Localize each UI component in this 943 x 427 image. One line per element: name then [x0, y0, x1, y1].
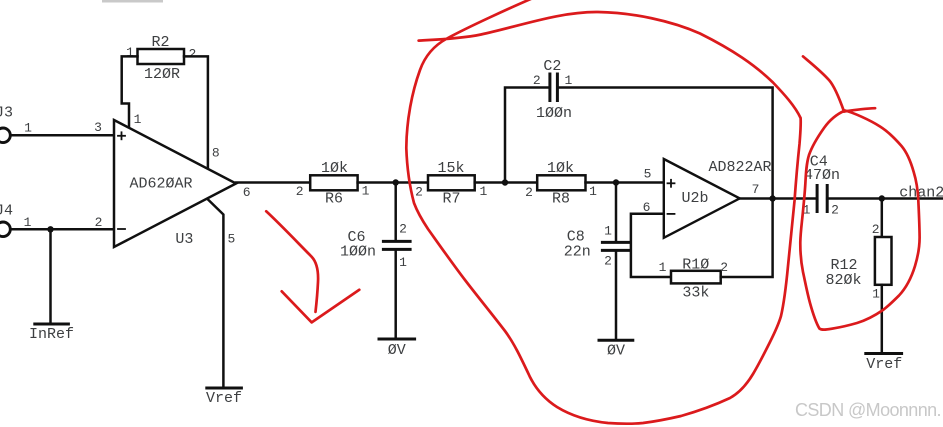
Vref terminal left: [206, 388, 242, 407]
cropped gray bar: [102, 0, 163, 3]
capacitor C4: [803, 154, 840, 218]
wire C6 to 0V: [394, 249, 397, 338]
svg-text:5: 5: [227, 232, 235, 247]
svg-text:12ØR: 12ØR: [144, 66, 180, 83]
wire U2b pin6 feedback: [631, 200, 671, 277]
svg-text:6: 6: [643, 200, 651, 215]
junction node at U2b output: [769, 195, 775, 201]
svg-text:1: 1: [24, 121, 32, 136]
svg-text:1: 1: [659, 260, 667, 275]
svg-text:2: 2: [533, 73, 541, 88]
wire node A to C6: [394, 183, 397, 242]
svg-text:5: 5: [644, 167, 652, 182]
svg-text:U2b: U2b: [681, 190, 708, 207]
op-amp U2b AD822AR: [664, 159, 772, 238]
connector J3: [0, 105, 13, 143]
svg-text:Vref: Vref: [206, 390, 242, 407]
capacitor C2: [533, 58, 573, 122]
junction node B: [502, 179, 508, 185]
svg-text:ØV: ØV: [388, 342, 406, 359]
svg-text:2: 2: [604, 254, 612, 269]
svg-text:1: 1: [589, 184, 597, 199]
capacitor C6: [340, 222, 410, 271]
svg-text:1: 1: [362, 184, 370, 199]
red annotation right loop: [800, 111, 919, 330]
op-amp U3 AD620AR: [114, 120, 236, 248]
svg-text:InRef: InRef: [29, 326, 74, 343]
wire J4 pin1 to U3 pin2: [10, 215, 114, 230]
svg-text:R1Ø: R1Ø: [682, 256, 709, 273]
capacitor C8: [564, 224, 630, 269]
wire U2b pin7 output: [740, 182, 817, 199]
svg-text:2: 2: [720, 260, 728, 275]
wire R12 to Vref: [881, 285, 884, 353]
resistor R7: [415, 160, 487, 208]
svg-text:J3: J3: [0, 105, 13, 122]
svg-text:Vref: Vref: [866, 356, 902, 373]
wire R10 pin2 to output: [721, 199, 773, 278]
svg-text:1Øk: 1Øk: [547, 160, 574, 177]
junction node D: [879, 195, 885, 201]
svg-text:22n: 22n: [564, 243, 591, 260]
svg-text:AD62ØAR: AD62ØAR: [129, 176, 192, 193]
svg-text:ØV: ØV: [607, 343, 625, 360]
junction node C: [613, 179, 619, 185]
svg-text:R2: R2: [151, 34, 169, 51]
wire C2 to U2b output: [557, 88, 772, 199]
svg-text:6: 6: [243, 185, 251, 200]
red annotation arrow stroke: [266, 211, 318, 312]
red annotation right loop tail: [803, 56, 844, 111]
svg-text:7: 7: [752, 182, 760, 197]
resistor R12: [825, 237, 891, 302]
wire U3 pin6 to R6: [236, 183, 310, 201]
svg-text:3: 3: [94, 120, 102, 135]
wire J3 pin1 to U3 pin3: [10, 120, 114, 136]
svg-text:2: 2: [95, 215, 103, 230]
wire node B up to C2: [505, 88, 550, 183]
wire to InRef: [49, 229, 52, 323]
resistor R6: [296, 160, 370, 208]
svg-text:8: 8: [212, 146, 220, 161]
svg-text:R6: R6: [325, 191, 343, 208]
svg-text:1: 1: [24, 215, 32, 230]
svg-text:1Øk: 1Øk: [321, 160, 348, 177]
svg-text:33k: 33k: [682, 285, 709, 302]
junction node A: [393, 179, 399, 185]
svg-text:J4: J4: [0, 203, 13, 220]
svg-text:1: 1: [126, 45, 134, 60]
svg-text:47Øn: 47Øn: [804, 167, 840, 184]
Vref terminal right: [866, 354, 903, 374]
red annotation big loop: [406, 0, 800, 424]
wire node C to C8: [615, 183, 618, 243]
svg-text:1: 1: [134, 112, 142, 127]
svg-text:U3: U3: [175, 231, 193, 248]
svg-text:R7: R7: [442, 191, 460, 208]
svg-text:1ØØn: 1ØØn: [536, 105, 572, 122]
red annotation arrow head: [282, 290, 360, 323]
svg-text:2: 2: [399, 222, 407, 237]
svg-text:2: 2: [415, 185, 423, 200]
InRef terminal: [29, 324, 74, 343]
svg-text:2: 2: [296, 184, 304, 199]
svg-text:CSDN @Moonnnn.: CSDN @Moonnnn.: [795, 400, 941, 420]
wire R2 pin1 to U3 pin1: [122, 56, 142, 128]
resistor R2: [126, 34, 196, 83]
resistor R10: [659, 256, 728, 301]
ground 0V right: [599, 340, 633, 359]
ground 0V left: [379, 339, 415, 359]
wire node D to R12: [872, 199, 882, 238]
svg-text:1: 1: [604, 224, 612, 239]
resistor R8: [525, 160, 597, 208]
wire R2 pin2 to U3 pin8: [184, 56, 220, 169]
wire C4 to chan2: [827, 185, 943, 202]
wire R6 to R7: [358, 181, 428, 184]
wire U3 pin5 to Vref: [208, 200, 235, 388]
svg-text:1: 1: [399, 255, 407, 270]
red annotation right loop dash: [844, 108, 875, 111]
svg-text:2: 2: [188, 47, 196, 62]
connector J4: [0, 203, 13, 237]
svg-text:1: 1: [564, 73, 572, 88]
svg-text:AD822AR: AD822AR: [708, 159, 771, 176]
svg-text:15k: 15k: [437, 160, 464, 177]
junction dot at J4 wire: [47, 226, 53, 232]
svg-text:2: 2: [872, 222, 880, 237]
wire R7 to R8: [475, 181, 538, 184]
svg-text:R8: R8: [552, 191, 570, 208]
svg-text:1ØØn: 1ØØn: [340, 244, 376, 261]
svg-text:C2: C2: [543, 58, 561, 75]
wire R8 to U2b pin5: [586, 167, 664, 183]
svg-text:chan2: chan2: [899, 185, 943, 202]
svg-text:2: 2: [831, 203, 839, 218]
svg-text:82Øk: 82Øk: [825, 272, 861, 289]
svg-text:1: 1: [872, 287, 880, 302]
svg-text:1: 1: [479, 184, 487, 199]
wire C8 to 0V: [615, 250, 618, 340]
svg-text:2: 2: [525, 185, 533, 200]
